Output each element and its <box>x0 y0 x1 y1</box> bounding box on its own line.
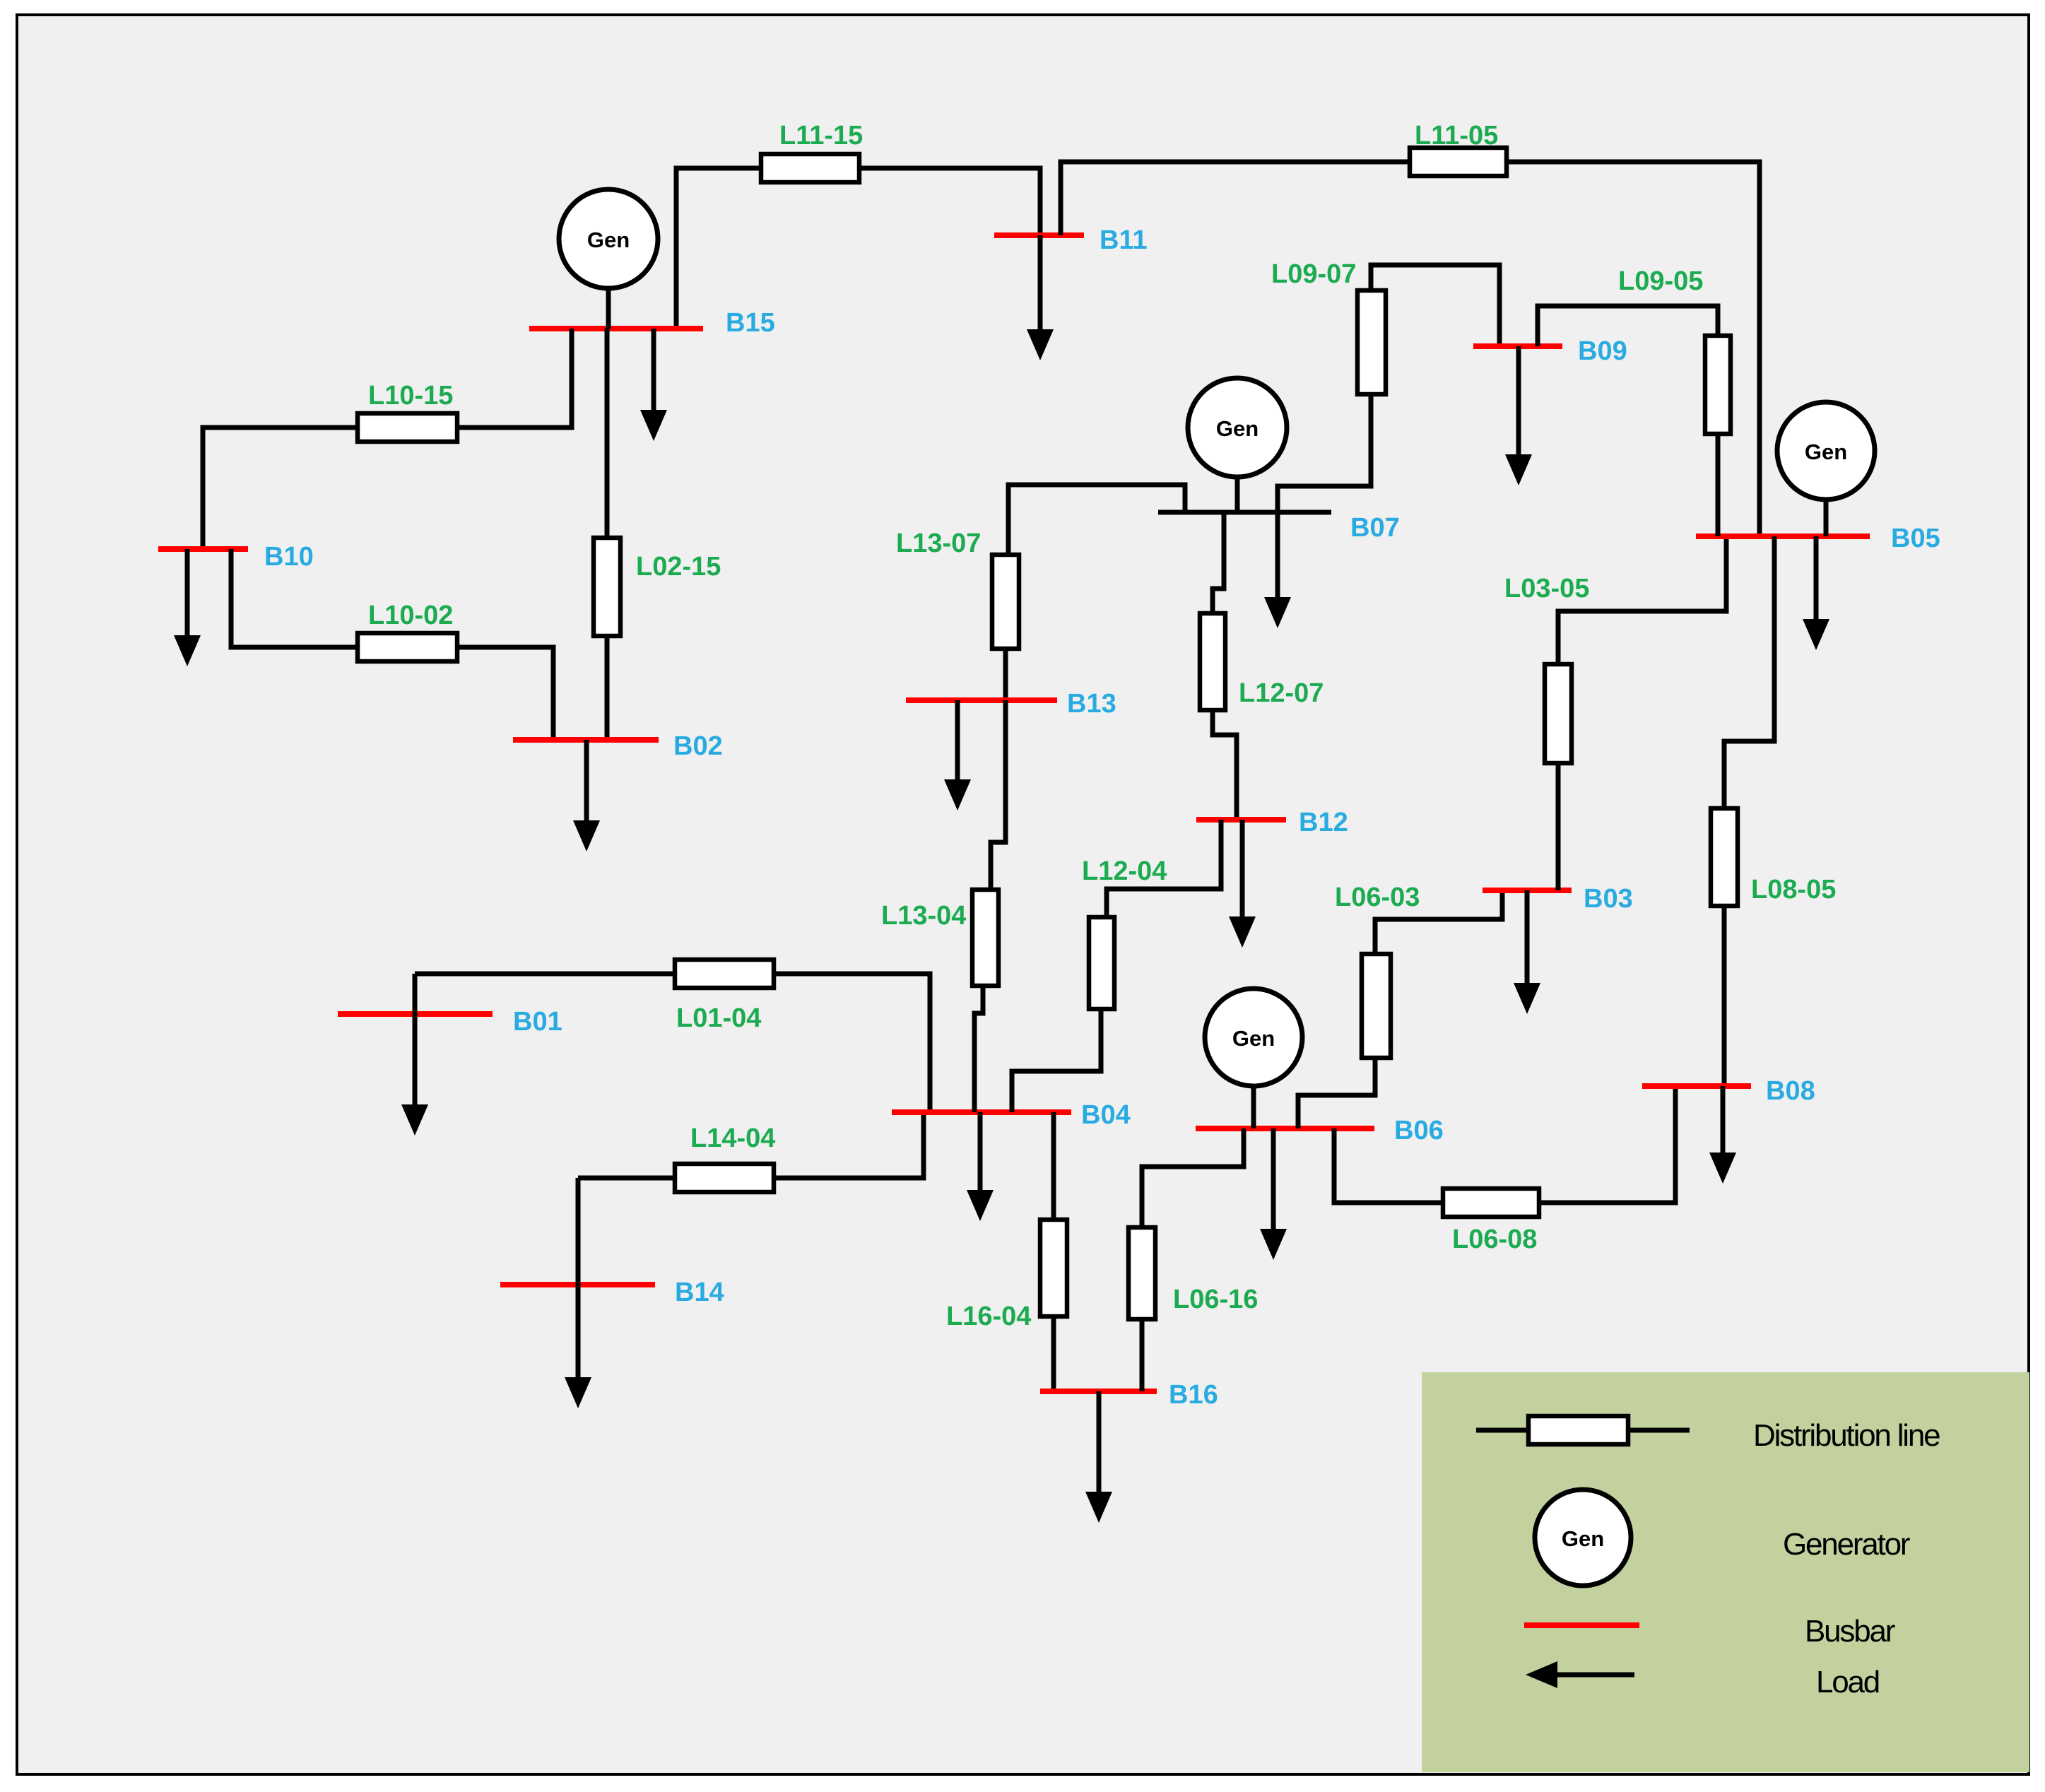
svg-text:B05: B05 <box>1891 524 1940 553</box>
busbar B09 <box>1473 343 1562 349</box>
svg-text:L11-05: L11-05 <box>1415 121 1498 151</box>
distribution line L11-05 <box>1410 148 1507 176</box>
wire L12-07 to B12 <box>1213 710 1237 820</box>
svg-text:B08: B08 <box>1766 1076 1815 1106</box>
busbar B05 <box>1696 534 1870 539</box>
svg-text:L06-08: L06-08 <box>1452 1225 1537 1254</box>
distribution line L09-05 <box>1705 336 1731 434</box>
wire L02-15 to B02 <box>605 636 610 740</box>
wire L01-04 to B04 <box>774 974 930 1112</box>
distribution line L06-03 <box>1362 954 1391 1058</box>
svg-text:Gen: Gen <box>1232 1026 1275 1051</box>
busbar B03 <box>1483 888 1572 893</box>
busbar B13 <box>906 697 1057 703</box>
svg-text:L13-04: L13-04 <box>881 901 966 931</box>
wire L09-05 to B05 <box>1716 434 1721 536</box>
load arrow at B04 <box>967 1112 994 1221</box>
distribution line L03-05 <box>1545 664 1572 763</box>
wire B09 to L09-05 <box>1538 306 1718 346</box>
generator G05 <box>1777 402 1875 536</box>
legend box <box>1422 1372 2029 1772</box>
svg-text:Gen: Gen <box>587 228 630 252</box>
svg-text:L10-15: L10-15 <box>368 381 453 411</box>
load arrow at B12 <box>1229 820 1256 948</box>
svg-text:B14: B14 <box>675 1278 724 1307</box>
busbar B07 (black) <box>1158 510 1331 515</box>
svg-text:B11: B11 <box>1100 225 1148 255</box>
busbar B14 <box>500 1282 655 1287</box>
wire B11 to L11-05 <box>1061 162 1410 235</box>
svg-text:B12: B12 <box>1299 808 1348 837</box>
busbar B12 <box>1196 817 1286 823</box>
svg-text:Load: Load <box>1816 1665 1879 1699</box>
wire B05 to L08-05 <box>1724 536 1774 808</box>
wire L16-04 to B16 <box>1051 1316 1056 1391</box>
svg-text:B13: B13 <box>1067 689 1116 719</box>
wire B15 to L02-15 <box>605 329 610 538</box>
svg-text:B09: B09 <box>1578 336 1627 366</box>
wire B07 to L09-07 <box>1278 394 1371 512</box>
load arrow at B02 <box>573 740 600 851</box>
svg-text:Gen: Gen <box>1805 440 1847 464</box>
svg-text:L12-04: L12-04 <box>1082 856 1167 886</box>
wire L03-05 to B05 <box>1558 536 1726 664</box>
wire L10-15 to B10 <box>203 428 358 549</box>
load arrow at B05 <box>1803 536 1829 650</box>
legend load symbol <box>1526 1661 1634 1688</box>
svg-text:Gen: Gen <box>1562 1526 1604 1551</box>
wire L08-05 to B08 <box>1722 906 1727 1086</box>
svg-text:L12-07: L12-07 <box>1239 678 1324 708</box>
wire B10 to L10-02 <box>231 549 358 647</box>
wire L11-05 to B05 <box>1507 162 1760 536</box>
distribution line L12-04 <box>1089 917 1114 1009</box>
load arrow at B09 <box>1505 346 1532 485</box>
busbar B11 <box>994 232 1084 238</box>
load arrow at B01 <box>401 974 428 1136</box>
distribution line L13-07 <box>992 555 1019 649</box>
svg-text:L08-05: L08-05 <box>1751 875 1836 904</box>
busbar B10 <box>158 546 248 552</box>
load arrow at B07 <box>1264 512 1291 628</box>
load arrow at B16 <box>1085 1391 1112 1523</box>
distribution line L08-05 <box>1711 808 1738 906</box>
distribution line L11-15 <box>761 154 859 182</box>
svg-text:L01-04: L01-04 <box>676 1003 761 1033</box>
legend generator symbol <box>1535 1490 1631 1586</box>
wire B15 to L10-15 <box>457 329 572 428</box>
distribution line L14-04 <box>675 1164 774 1192</box>
distribution line L16-04 <box>1040 1220 1067 1316</box>
svg-text:L11-15: L11-15 <box>779 121 863 151</box>
distribution line L01-04 <box>675 960 774 988</box>
distribution line L10-02 <box>358 633 457 661</box>
svg-text:L14-04: L14-04 <box>690 1124 775 1153</box>
svg-text:L03-05: L03-05 <box>1504 574 1589 603</box>
wire B03 to L03-05 <box>1556 763 1561 890</box>
distribution line L09-07 <box>1357 290 1386 394</box>
legend busbar symbol <box>1524 1622 1639 1628</box>
generator G07 <box>1188 378 1287 512</box>
busbar B02 <box>513 737 659 743</box>
wire L14-04 left leg <box>578 1176 675 1181</box>
distribution line L12-07 <box>1200 613 1225 710</box>
wire B12 to L12-04 <box>1107 820 1221 917</box>
load arrow at B11 <box>1027 235 1054 360</box>
wire L13-07 to B13 <box>1003 649 1008 700</box>
svg-text:Distribution line: Distribution line <box>1753 1418 1940 1453</box>
generator G06 <box>1205 989 1302 1128</box>
wire L10-02 to B02 <box>457 647 553 740</box>
wire B06 to L06-16 <box>1142 1128 1244 1227</box>
distribution line L02-15 <box>594 538 620 636</box>
wire B15 to L11-15 <box>676 168 761 329</box>
wire L14-04 to B04 <box>774 1112 924 1178</box>
load arrow at B13 <box>944 700 971 810</box>
wire L12-04 to B04 <box>1012 1009 1101 1112</box>
svg-text:L06-16: L06-16 <box>1173 1285 1258 1314</box>
wire B04 to L16-04 <box>1051 1112 1056 1220</box>
svg-text:B15: B15 <box>726 308 775 338</box>
wire L06-03 to B03 <box>1375 890 1502 954</box>
svg-text:L06-03: L06-03 <box>1335 883 1420 912</box>
wire B06 to L06-03 <box>1298 1058 1375 1128</box>
busbar B16 <box>1040 1389 1157 1394</box>
load arrow at B10 <box>174 549 201 666</box>
svg-text:B04: B04 <box>1081 1100 1131 1130</box>
svg-text:L02-15: L02-15 <box>636 552 721 582</box>
svg-text:Gen: Gen <box>1216 416 1259 441</box>
load arrow at B08 <box>1709 1086 1736 1184</box>
distribution line L06-08 <box>1443 1189 1539 1217</box>
svg-text:L13-07: L13-07 <box>896 529 981 558</box>
busbar B04 <box>892 1109 1071 1115</box>
busbar B06 <box>1196 1126 1374 1131</box>
load arrow at B14 <box>565 1178 591 1408</box>
wire L06-16 to B16 <box>1140 1319 1145 1391</box>
svg-text:B16: B16 <box>1169 1380 1218 1410</box>
svg-text:B03: B03 <box>1584 884 1633 914</box>
svg-text:Generator: Generator <box>1783 1527 1910 1562</box>
wire B07 to L13-07 <box>1008 485 1185 555</box>
busbar B15 <box>529 326 703 331</box>
svg-text:L16-04: L16-04 <box>946 1302 1031 1331</box>
svg-text:B07: B07 <box>1350 513 1400 543</box>
wire L09-07 to B09 <box>1371 265 1499 346</box>
wire L01-04 left leg <box>415 972 675 977</box>
load arrow at B15 <box>640 329 667 441</box>
svg-text:B02: B02 <box>673 731 723 761</box>
legend distribution line symbol <box>1476 1416 1690 1444</box>
load arrow at B03 <box>1514 890 1540 1014</box>
svg-text:Busbar: Busbar <box>1805 1614 1895 1649</box>
svg-text:L09-07: L09-07 <box>1271 259 1356 289</box>
load arrow at B06 <box>1260 1128 1287 1260</box>
wire B13 to L13-04 <box>991 700 1006 890</box>
wire L13-04 to B04 <box>974 986 983 1112</box>
busbar B01 <box>338 1011 493 1017</box>
svg-text:B01: B01 <box>513 1007 562 1037</box>
wire L06-08 to B08 <box>1539 1086 1675 1203</box>
distribution line L13-04 <box>972 890 998 986</box>
wire L11-15 to B11 <box>859 168 1040 235</box>
svg-text:B06: B06 <box>1394 1116 1444 1145</box>
distribution line L06-16 <box>1128 1227 1155 1319</box>
wire B06 to L06-08 <box>1334 1128 1443 1203</box>
svg-text:L09-05: L09-05 <box>1618 266 1703 296</box>
svg-text:B10: B10 <box>264 542 314 572</box>
wire B07 to L12-07 <box>1213 512 1224 613</box>
distribution line L10-15 <box>358 413 457 442</box>
svg-text:L10-02: L10-02 <box>368 601 453 630</box>
generator G15 <box>559 189 658 329</box>
busbar B08 <box>1642 1083 1751 1089</box>
